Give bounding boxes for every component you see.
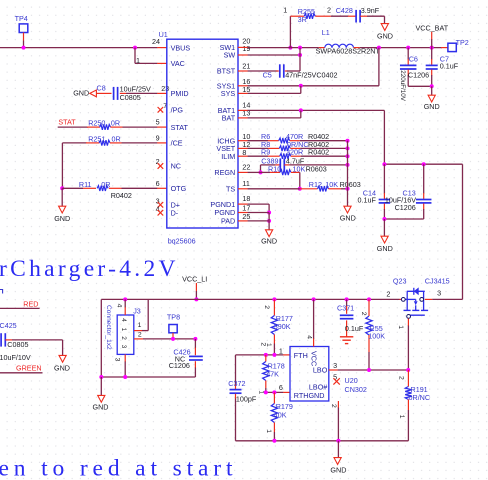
node junction gate/R191 (406, 368, 410, 372)
svg-text:R10: R10 (268, 164, 281, 173)
wire SYS pin15 (248, 86, 301, 94)
svg-text:GND: GND (377, 31, 393, 40)
svg-text:GND: GND (73, 88, 89, 97)
svg-text:18: 18 (242, 194, 250, 203)
wire VCC_LI rail (101, 298, 399, 300)
capacitor C428 3.9nF (336, 6, 380, 23)
svg-text:0.1uF: 0.1uF (358, 195, 377, 204)
capacitor C371 0.1uF (337, 299, 364, 336)
svg-text:220uF/10V: 220uF/10V (399, 70, 406, 102)
wire C428 to GND (367, 16, 385, 23)
wire bottom ground rail (236, 440, 409, 442)
node junction PAD (267, 219, 271, 223)
resistor R250 0R (87, 119, 123, 130)
svg-text:TS: TS (226, 185, 235, 194)
svg-text:C6: C6 (409, 54, 418, 63)
svg-text:6: 6 (279, 383, 283, 392)
svg-text:C8: C8 (97, 84, 106, 93)
pin 9 /CE stub (157, 142, 167, 144)
svg-text:1: 1 (279, 346, 283, 355)
wire L1 to VCC_BAT (360, 47, 442, 49)
svg-text:LBO: LBO (313, 365, 328, 374)
ground GND below R11 (54, 188, 70, 223)
U1 right pin names (210, 43, 235, 226)
no-connect X on pin 3 D+ (156, 196, 164, 207)
node junction VCC_LI (194, 297, 198, 301)
wire BAT1 pin14 (248, 109, 385, 111)
svg-text:bq25606: bq25606 (168, 236, 196, 245)
svg-text:1: 1 (265, 429, 272, 433)
svg-text:10K: 10K (325, 180, 338, 189)
svg-text:0.1uF: 0.1uF (440, 61, 459, 70)
J3 pin 2 wire (134, 331, 195, 339)
svg-text:L1: L1 (322, 28, 330, 37)
node junction U20 gnd (336, 439, 340, 443)
svg-text:FTH: FTH (294, 351, 308, 360)
wire PGND pin17 (248, 212, 270, 214)
svg-text:STAT: STAT (171, 123, 189, 132)
node junction R12 gnd rail (346, 187, 350, 191)
svg-text:ILIM: ILIM (221, 152, 235, 161)
svg-text:C428: C428 (336, 6, 353, 15)
op-amp U1 bq25606 charger IC body (167, 39, 238, 228)
svg-text:SW: SW (224, 51, 236, 60)
svg-text:D-: D- (171, 208, 179, 217)
svg-text:/CE: /CE (171, 139, 183, 148)
wire SW node to L1 (248, 47, 319, 49)
svg-text:11: 11 (242, 179, 249, 188)
capacitor C372 100pF (228, 355, 257, 441)
wire C6/C7 ground rail (408, 85, 432, 87)
node junction VAC branch (133, 46, 137, 50)
wire FTH row (236, 354, 284, 356)
node junction R179 top (272, 390, 276, 394)
svg-text:3: 3 (114, 358, 121, 362)
no-connect X on pin 4 D- (156, 204, 164, 215)
wire REGN pin22 (248, 171, 261, 173)
svg-text:GND: GND (377, 244, 393, 253)
ground GND for C428 (377, 24, 393, 41)
node junction R11/GND (60, 186, 64, 190)
inductor L1 SWPA6028S2R2NT (316, 28, 381, 55)
svg-text:0R: 0R (112, 134, 121, 143)
net label RED (0, 299, 40, 308)
svg-text:2: 2 (386, 290, 390, 299)
ground GND for R6-R12 rail (340, 206, 356, 222)
svg-text:47nF/25VC0402: 47nF/25VC0402 (285, 71, 337, 80)
U20 GND pin 2 drop (330, 401, 338, 441)
capacitor C389 4.7uF (261, 156, 348, 172)
wire R251 to /CE pin (122, 142, 158, 144)
svg-text:100pF: 100pF (236, 394, 257, 403)
no-connect X on pin 2 NC (156, 157, 164, 169)
svg-text:2: 2 (138, 331, 142, 338)
svg-text:TP4: TP4 (15, 14, 28, 23)
svg-text:GND: GND (261, 236, 277, 245)
svg-text:TP2: TP2 (456, 38, 469, 47)
node junction BAT pins (299, 108, 303, 112)
resistor R11 0R (62, 180, 132, 200)
svg-text:9: 9 (156, 134, 160, 143)
svg-text:GND: GND (330, 465, 346, 474)
svg-text:2: 2 (360, 312, 367, 316)
svg-text:23: 23 (161, 84, 169, 93)
pin 6 OTG stub (157, 187, 167, 189)
svg-text:10uF/10V: 10uF/10V (0, 353, 31, 362)
wire TS pin11 (248, 188, 300, 190)
wire R11 to OTG pin (122, 187, 158, 189)
J3 pin 1 loop wire (134, 299, 148, 330)
transistor Q23 PMOS symbol (400, 287, 433, 318)
svg-text:BAT: BAT (222, 114, 236, 123)
wire C8 to PMID (126, 92, 157, 94)
node junction R9 gnd rail (346, 154, 350, 158)
svg-text:4: 4 (116, 304, 123, 308)
wire SW pin19 (248, 54, 300, 56)
svg-text:VCC_LI: VCC_LI (182, 275, 207, 284)
svg-text:C5: C5 (263, 71, 272, 80)
node junction R6 gnd rail (346, 139, 350, 143)
node junction C6 (406, 46, 410, 50)
wire RTHGND row (266, 391, 284, 393)
wire VBUS main horizontal (0, 47, 157, 49)
wire PAD pin25 (248, 213, 270, 221)
svg-text:2: 2 (330, 404, 337, 408)
svg-text:0R: 0R (111, 119, 120, 128)
U1 right pin stubs (238, 47, 248, 221)
net label GREEN (0, 364, 43, 373)
node junction R178 top (264, 353, 268, 357)
capacitor C8 10uF/25V (96, 84, 151, 103)
svg-text:R250: R250 (88, 119, 105, 128)
svg-text:CN302: CN302 (345, 385, 367, 394)
test point TP8 (167, 312, 180, 339)
wire TP4 to VBUS net (23, 41, 25, 48)
svg-text:R12: R12 (309, 180, 322, 189)
node junction J3 pin3 bottom (123, 375, 127, 379)
resistor R255 3R (290, 7, 331, 24)
ground GND for U20 rail (330, 441, 346, 475)
node junction R179 bottom (272, 439, 276, 443)
capacitor C13 10uF/16V (384, 164, 431, 219)
svg-text:C371: C371 (337, 303, 354, 312)
svg-text:C0805: C0805 (7, 340, 28, 349)
wire R250 to STAT pin (123, 126, 158, 128)
node junction R177 top (272, 297, 276, 301)
no-connect X on U20 pin 5 LBO# (333, 373, 340, 385)
ground GND for J3 (93, 377, 109, 412)
op-amp U20 CN302 body (290, 347, 329, 402)
svg-text:19: 19 (242, 44, 250, 53)
svg-text:4: 4 (306, 335, 313, 339)
node junction pin19/pin20 riser (298, 46, 302, 50)
svg-text:C1206: C1206 (169, 361, 190, 370)
wire J3 left drop (100, 299, 102, 377)
svg-text:GND: GND (340, 213, 356, 222)
ground GND for PGND (261, 221, 277, 246)
svg-text:GND: GND (54, 363, 70, 372)
svg-text:3R: 3R (298, 15, 307, 24)
node junction U20 VCC drop (312, 297, 316, 301)
svg-text:0R: 0R (101, 180, 110, 189)
resistor R12 10K (300, 180, 361, 191)
node junction R178 bottom (264, 390, 268, 394)
resistor R10 10K (261, 164, 327, 175)
wire VCC_BAT sense drop (462, 164, 464, 299)
no-connect X on pin 7 /PG (158, 101, 168, 113)
svg-text:R9: R9 (261, 148, 270, 157)
wire /CE net vertical (62, 143, 86, 188)
U1 left pin names (171, 43, 191, 217)
svg-text:Q23: Q23 (393, 276, 407, 285)
wire BAT pin13 (248, 110, 301, 118)
resistor R177 390K (263, 299, 293, 355)
svg-text:25: 25 (242, 212, 250, 221)
wire Q23 gate down (397, 319, 409, 371)
svg-text:4: 4 (120, 318, 127, 322)
svg-text:R11: R11 (79, 180, 92, 189)
svg-text:1: 1 (398, 415, 405, 419)
resistor R179 40K (265, 392, 293, 440)
svg-text:OTG: OTG (171, 184, 187, 193)
svg-text:3: 3 (437, 289, 441, 298)
wire resistor ground rail (347, 141, 349, 207)
wire BTST pin21 to C5 (248, 70, 278, 72)
svg-text:REGN: REGN (214, 168, 235, 177)
svg-text:TP8: TP8 (167, 312, 180, 321)
pin 1 VAC stub (157, 62, 167, 64)
U20 LBO pin 3 wire (329, 361, 408, 370)
wire STAT net (58, 126, 88, 128)
svg-text:R0603: R0603 (340, 180, 361, 189)
svg-text:2: 2 (398, 376, 405, 380)
wire SYS1 pin16 long (248, 85, 379, 87)
capacitor C425 (0, 321, 63, 362)
node junction SYS riser (377, 46, 381, 50)
svg-text:PAD: PAD (221, 217, 235, 226)
resistor R6 470R (248, 132, 348, 143)
resistor R55 100K (360, 299, 385, 370)
node junction C7 gnd (430, 84, 434, 88)
wire VAC branch (135, 48, 157, 64)
svg-text:R251: R251 (88, 134, 105, 143)
svg-text:PMID: PMID (171, 89, 189, 98)
wire BAT riser down (383, 110, 385, 164)
svg-text:2: 2 (260, 342, 267, 346)
resistor R191 0R/NC (398, 370, 431, 441)
resistor R251 0R (86, 134, 122, 145)
node junction REGN/R10 (259, 170, 263, 174)
svg-text:0.1uF: 0.1uF (345, 324, 364, 333)
svg-text:8: 8 (242, 148, 246, 157)
svg-text:C372: C372 (228, 379, 245, 388)
svg-text:GREEN: GREEN (16, 364, 42, 373)
U20 VCC pin 4 drop (306, 299, 314, 346)
svg-text:C425: C425 (0, 321, 17, 330)
capacitor C7 0.1uF (426, 48, 459, 87)
svg-text:100K: 100K (368, 332, 385, 341)
node junction J3 pin4 (123, 297, 127, 301)
wire SYS riser to VCC node (378, 48, 380, 86)
capacitor C6 220uF/10V (399, 48, 429, 102)
svg-text:1: 1 (257, 390, 264, 394)
svg-text:2: 2 (120, 336, 127, 340)
svg-text:J3: J3 (133, 306, 141, 315)
svg-text:24: 24 (152, 37, 160, 46)
node junction C13 (422, 162, 426, 166)
svg-text:R0402: R0402 (308, 148, 329, 157)
node junction R255 drop (288, 46, 292, 50)
wire Q23 drain to VCC_BAT drop (432, 298, 462, 300)
svg-text:VCC_BAT: VCC_BAT (416, 23, 449, 32)
svg-text:VCC: VCC (310, 351, 319, 366)
svg-text:R0402: R0402 (111, 191, 132, 200)
svg-text:RED: RED (23, 299, 38, 308)
node junction R8 gnd rail (346, 146, 350, 150)
J3 internal pin numbers (120, 318, 127, 349)
node junction SYS pins (299, 84, 303, 88)
svg-text:STAT: STAT (58, 118, 76, 127)
wire VCC_LI stub (195, 283, 197, 299)
pin 1 FTH stub (279, 346, 290, 355)
wire riser SW to C5 (299, 48, 301, 71)
svg-text:10K: 10K (293, 164, 306, 173)
node junction R55 top (367, 297, 371, 301)
svg-text:R0603: R0603 (306, 164, 327, 173)
svg-text:BTST: BTST (217, 67, 236, 76)
node junction C14 gnd (382, 217, 386, 221)
wire R10 to TS node (299, 172, 301, 188)
test point TP4 (15, 14, 28, 41)
svg-text:1: 1 (283, 6, 287, 15)
pin 24 VBUS stub (157, 47, 167, 49)
earth ground for C371 (340, 337, 353, 344)
connector J3 body (117, 315, 134, 354)
svg-text:1: 1 (136, 56, 140, 65)
svg-text:en to red at start: en to red at start (0, 455, 233, 480)
svg-text:GND: GND (424, 102, 440, 111)
J3 pin 4 stub (116, 299, 126, 315)
node junction VCC_BAT (430, 46, 434, 50)
node junction R55 bottom (367, 368, 371, 372)
designator U20 (345, 376, 367, 394)
node junction C426 top (193, 337, 197, 341)
svg-text:VBUS: VBUS (171, 43, 191, 52)
U1 right pin numbers (242, 37, 250, 221)
svg-text:NC: NC (171, 162, 181, 171)
svg-text:C1206: C1206 (408, 71, 429, 80)
svg-text:220R: 220R (286, 148, 303, 157)
capacitor C14 0.1uF (358, 164, 391, 219)
svg-text:3: 3 (333, 361, 337, 370)
svg-text:47K: 47K (266, 370, 279, 379)
svg-text:3: 3 (120, 345, 127, 349)
node junction C389 gnd rail (346, 163, 350, 167)
svg-text:RTHGND: RTHGND (294, 391, 325, 400)
svg-text:40K: 40K (274, 410, 287, 419)
svg-text:5: 5 (156, 118, 160, 127)
svg-text:3.9nF: 3.9nF (361, 6, 380, 15)
svg-text:GND: GND (54, 214, 70, 223)
ground GND for C425 (54, 340, 70, 373)
svg-text:21: 21 (242, 62, 250, 71)
svg-text:22: 22 (242, 163, 250, 172)
svg-text:2: 2 (327, 6, 331, 15)
svg-text:U20: U20 (345, 376, 358, 385)
svg-text:SYS: SYS (221, 89, 236, 98)
svg-text:6: 6 (156, 179, 160, 188)
node junction C14 (382, 162, 386, 166)
svg-text:2: 2 (263, 305, 270, 309)
ground GND for C6/C7 (424, 86, 440, 111)
pin 23 PMID stub (157, 92, 167, 94)
node junction TS/R12 (298, 187, 302, 191)
pin 5 STAT stub (157, 126, 167, 128)
node junction TP4/VBUS (22, 46, 26, 50)
svg-text:Connector_1x2: Connector_1x2 (105, 305, 112, 350)
svg-text:GND: GND (93, 403, 109, 412)
resistor R178 47K (257, 342, 284, 394)
svg-text:1: 1 (138, 322, 142, 329)
wire VCC_BAT stub (431, 32, 433, 48)
wire R255 node1 drop (289, 16, 291, 47)
resistor R8 0R/NC (248, 140, 348, 151)
node junction C371 top (345, 297, 349, 301)
transistor Q23 CJ3415 labels (393, 276, 450, 285)
svg-text:0R/NC: 0R/NC (409, 393, 431, 402)
capacitor C5 47nF/25V (263, 64, 338, 79)
capacitor C426 NC (101, 339, 203, 377)
test point TP2 (441, 38, 469, 51)
node junction R177 bottom (272, 353, 276, 357)
wire C5 to SW riser (287, 70, 300, 72)
node junction PGND (267, 211, 271, 215)
node junction TP8 (171, 337, 175, 341)
svg-text:CJ3415: CJ3415 (425, 276, 450, 285)
svg-text:1: 1 (120, 328, 127, 332)
left edge fragment (0, 290, 3, 294)
svg-text:390K: 390K (274, 322, 291, 331)
pin 6 RTHGND stub (279, 383, 290, 392)
svg-text:VAC: VAC (171, 59, 185, 68)
J3 pin 3 stub (114, 354, 126, 377)
U20 pin names (294, 351, 328, 400)
svg-text:/PG: /PG (171, 106, 184, 115)
ground symbol for C8 (73, 88, 96, 97)
resistor R9 220R (248, 148, 348, 159)
svg-text:C1206: C1206 (395, 203, 416, 212)
svg-text:C0805: C0805 (120, 93, 141, 102)
ground GND below C14 (377, 219, 393, 253)
wire R255 to C428 (331, 15, 348, 17)
wire BAT rail horizontal (384, 163, 462, 165)
node junction J3 gnd (99, 375, 103, 379)
wire PGND1 pin18 (248, 204, 270, 212)
svg-text:1: 1 (397, 325, 404, 329)
